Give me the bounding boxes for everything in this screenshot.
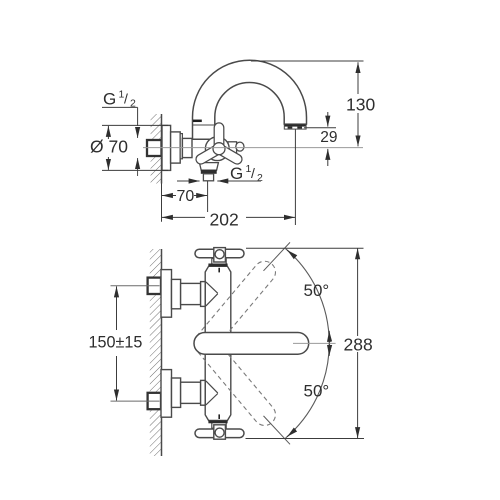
upper flange step: [172, 279, 181, 308]
dashed spout position +50: [190, 257, 280, 359]
upper pipe: [181, 283, 201, 304]
svg-text:Ø 70: Ø 70: [90, 137, 128, 157]
lower chamfer cone: [206, 381, 218, 405]
arc mid arrow up: [328, 331, 330, 343]
upper S-union stub: [148, 278, 161, 294]
dim O70 extension lines: [102, 124, 168, 126]
spout nut line: [193, 124, 215, 126]
aerator dark band: [285, 124, 306, 126]
outlet dark ring: [201, 170, 217, 174]
upper chamfer cone: [206, 282, 218, 306]
lower S-union stub: [148, 393, 161, 409]
threaded inlet stub G1/2: [147, 140, 162, 156]
handle spoke lower-right: [216, 144, 243, 165]
label 50deg top: [304, 281, 330, 300]
upper handle bar: [195, 249, 244, 258]
lower flange step: [172, 378, 181, 407]
dim 202: [294, 130, 296, 226]
swivel arc: [286, 249, 330, 438]
dim G1/2 outlet label: [230, 163, 263, 184]
lower hub circle: [215, 428, 224, 437]
wall face line: [161, 114, 163, 184]
dim 29: [304, 127, 336, 129]
axis centerline: [143, 147, 363, 149]
50deg axis tick bottom: [264, 416, 291, 444]
upper neck white: [212, 259, 226, 265]
upper pipe collar: [201, 282, 206, 307]
svg-text:G: G: [103, 90, 116, 109]
dim 70: [161, 184, 163, 222]
svg-text:/: /: [124, 91, 128, 107]
arc mid arrow down: [328, 344, 330, 356]
label 50deg bottom: [304, 381, 330, 400]
flange step: [171, 132, 181, 163]
spout tube (inverted U): [193, 60, 307, 139]
escutcheon flange (O70): [162, 125, 171, 170]
lower escutcheon: [161, 370, 172, 418]
dim 288 line/arrows: [357, 248, 359, 336]
upper tick: [218, 268, 220, 273]
dim O70 text: [90, 137, 128, 157]
valve bonnet circle: [205, 137, 229, 161]
mixer body: [205, 266, 231, 420]
handle spoke up: [214, 123, 224, 149]
spout (plan, solid): [194, 333, 309, 355]
outlet tube G1/2: [203, 174, 213, 181]
handle hub: [213, 143, 225, 155]
dim O70 arrows: [107, 126, 109, 139]
dim 150+-15 line/arrows: [116, 286, 118, 330]
handle spoke lower-left: [194, 144, 221, 165]
svg-text:150±15: 150±15: [89, 334, 143, 352]
diverter neck: [228, 142, 237, 155]
dim 288 extension lines: [246, 247, 364, 249]
upper hub circle: [215, 250, 224, 259]
svg-text:70: 70: [177, 188, 195, 205]
lower tick: [218, 414, 220, 419]
outlet cone: [199, 163, 218, 171]
upper neck dark band: [208, 264, 227, 267]
svg-text:50°: 50°: [304, 281, 330, 300]
lower neck dark band: [208, 421, 227, 424]
lower neck white: [212, 422, 226, 428]
svg-text:288: 288: [344, 334, 373, 354]
wall face line: [161, 249, 163, 456]
lower pipe: [181, 382, 201, 403]
lower handle bar: [195, 429, 244, 438]
spout axis centerline: [293, 342, 336, 344]
dashed spout position -50: [190, 328, 280, 430]
spout joint tick: [193, 120, 202, 123]
upper escutcheon: [161, 270, 172, 318]
upper handle hub: [214, 248, 226, 262]
wall hatch (side view): [151, 114, 162, 184]
svg-text:202: 202: [210, 210, 239, 230]
lower pipe collar: [201, 380, 206, 405]
lower handle hub: [214, 425, 226, 439]
svg-text:130: 130: [346, 95, 375, 115]
wall hatch (plan view): [150, 249, 162, 456]
dim 150+-15 extension lines: [111, 285, 160, 287]
svg-text:/: /: [251, 165, 255, 181]
valve front cylinder: [182, 138, 192, 157]
arc arrow bottom: [287, 430, 295, 436]
dim 130: [251, 60, 364, 62]
thin ring: [180, 134, 182, 159]
svg-text:50°: 50°: [304, 381, 330, 400]
aerator dark teeth: [288, 127, 293, 129]
arc arrow top: [287, 250, 295, 256]
dim G1/2 top label: [103, 89, 136, 110]
spout aerator block: [284, 124, 306, 129]
svg-text:29: 29: [320, 129, 337, 146]
svg-text:G: G: [230, 164, 243, 183]
50deg axis tick top: [264, 242, 291, 270]
svg-text:2: 2: [257, 172, 263, 184]
diverter knob: [236, 142, 244, 151]
